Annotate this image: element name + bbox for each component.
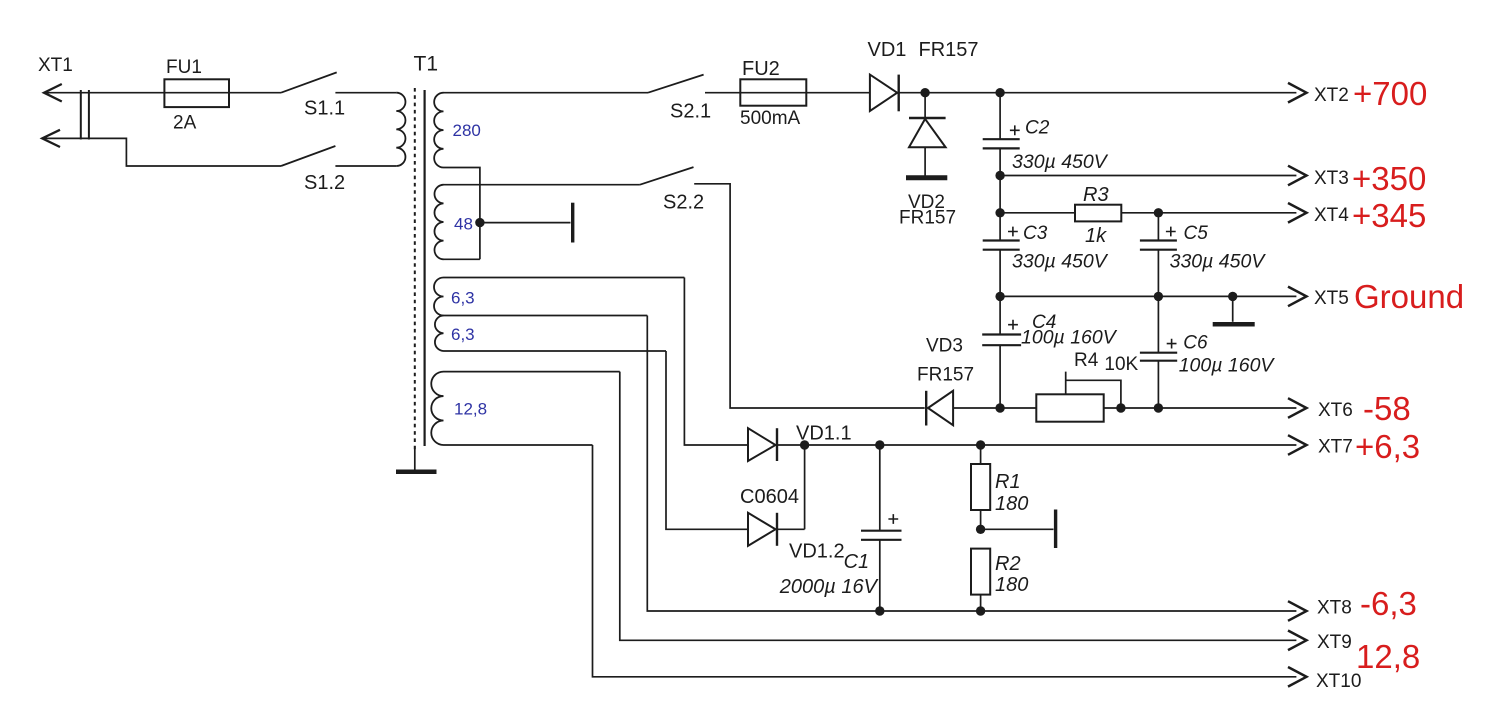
svg-text:FR157: FR157 (917, 365, 974, 386)
svg-text:280: 280 (453, 121, 481, 140)
diode VD3 cathode bar (925, 391, 927, 426)
svg-text:+345: +345 (1352, 197, 1426, 234)
svg-text:XT2: XT2 (1314, 85, 1349, 106)
T1 core solid line (424, 90, 426, 446)
wire (694, 184, 925, 408)
resistor R1 (980, 445, 982, 464)
T1 secondary winding 6,3 second (435, 316, 444, 352)
switch S2.1 blade (648, 75, 704, 93)
XT1 lower arrow (42, 130, 60, 147)
switch S1.1 blade (281, 72, 337, 92)
svg-text:XT3: XT3 (1314, 168, 1349, 189)
wire (444, 350, 667, 352)
fuse FU2 (740, 79, 806, 105)
wire (1121, 212, 1296, 214)
XT1 upper arrow (44, 84, 62, 102)
diode VD1 (870, 75, 897, 111)
T1 secondary winding 12,8 (431, 372, 443, 445)
wire (444, 371, 620, 373)
svg-text:VD1: VD1 (868, 39, 907, 61)
C3 plus sign (1008, 227, 1018, 237)
capacitor C5 (1157, 213, 1159, 241)
terminal arrow XT2 (1288, 83, 1307, 103)
svg-text:S1.1: S1.1 (304, 98, 345, 120)
rail XT10 (593, 445, 1297, 677)
svg-text:VD3: VD3 (926, 336, 963, 357)
diode VD2 cathode bar (909, 117, 946, 119)
capacitor C6 (1157, 296, 1159, 352)
svg-text:XT9: XT9 (1317, 632, 1352, 653)
wire (444, 92, 649, 94)
wire (804, 445, 806, 529)
terminal arrow XT7 (1288, 435, 1307, 455)
chassis tap bar (571, 203, 574, 243)
junction (1154, 403, 1163, 412)
wire (444, 184, 640, 186)
junction (475, 218, 484, 227)
svg-text:330µ 450V: 330µ 450V (1012, 251, 1109, 273)
junction (976, 525, 985, 534)
junction (875, 606, 884, 615)
svg-text:330µ 450V: 330µ 450V (1170, 251, 1267, 273)
VD2 ground bar (906, 175, 947, 180)
svg-text:C1: C1 (844, 551, 870, 573)
wire (981, 528, 1054, 530)
wire (924, 147, 926, 175)
junction (995, 88, 1004, 97)
svg-text:500mA: 500mA (740, 108, 801, 129)
terminal arrow XT10 (1288, 667, 1307, 687)
VD1.1 cathode bar (776, 428, 778, 461)
wire (444, 315, 648, 317)
svg-text:C2: C2 (1025, 118, 1050, 139)
svg-text:VD1.2: VD1.2 (789, 541, 845, 563)
T1 secondary winding 280 (434, 93, 443, 168)
svg-text:12,8: 12,8 (1356, 638, 1420, 675)
svg-text:XT6: XT6 (1318, 400, 1353, 421)
T1 secondary winding 6,3 first (434, 278, 444, 316)
wire (335, 92, 396, 94)
rheostat R4 (1036, 394, 1103, 421)
C6 plus sign (1167, 339, 1177, 349)
svg-text:100µ 160V: 100µ 160V (1021, 327, 1118, 349)
svg-text:100µ 160V: 100µ 160V (1179, 355, 1276, 377)
svg-text:R3: R3 (1083, 184, 1109, 206)
svg-text:10K: 10K (1104, 354, 1138, 375)
wire (705, 92, 870, 94)
svg-text:-58: -58 (1363, 390, 1411, 427)
resistor R3 (1075, 205, 1121, 222)
wire (335, 165, 396, 167)
terminal arrow XT6 (1288, 398, 1307, 418)
capacitor C4 (999, 296, 1001, 334)
svg-text:XT7: XT7 (1318, 437, 1353, 458)
svg-text:T1: T1 (414, 53, 439, 76)
VD1.2 cathode bar (776, 513, 778, 546)
svg-text:+6,3: +6,3 (1355, 428, 1420, 465)
terminal arrow XT5 (1288, 287, 1307, 307)
terminal arrow XT9 (1288, 631, 1307, 651)
wire (999, 176, 1001, 213)
chassis tap bar (1054, 510, 1057, 549)
svg-text:48: 48 (454, 215, 473, 234)
svg-text:XT1: XT1 (38, 55, 73, 76)
wire (45, 92, 281, 94)
rail XT9 (620, 372, 1297, 641)
svg-text:S1.2: S1.2 (304, 172, 345, 194)
wire (444, 444, 593, 446)
C4 plus sign (1008, 320, 1018, 330)
C5 plus sign (1166, 227, 1176, 237)
junction (800, 440, 809, 449)
ground bar (396, 470, 437, 475)
svg-text:12,8: 12,8 (454, 400, 487, 419)
svg-text:+700: +700 (1353, 75, 1427, 112)
resistor R2 (971, 549, 990, 595)
svg-text:C6: C6 (1183, 333, 1208, 354)
terminal arrow XT8 (1288, 601, 1307, 621)
svg-text:C5: C5 (1184, 223, 1209, 244)
wire (444, 277, 685, 279)
wire 6,3 to VD1.2 (666, 351, 748, 529)
terminal arrow XT3 (1288, 166, 1307, 186)
capacitor C2 (999, 93, 1001, 139)
wire (43, 138, 281, 166)
wire (444, 258, 480, 260)
svg-text:330µ 450V: 330µ 450V (1012, 151, 1109, 173)
svg-text:FR157: FR157 (919, 39, 979, 61)
rail XT5 (1000, 295, 1296, 297)
rail XT4 wire (1000, 212, 1075, 214)
svg-text:Ground: Ground (1354, 278, 1464, 315)
C1 plus sign (888, 514, 898, 524)
svg-text:-6,3: -6,3 (1360, 585, 1417, 622)
svg-text:FU1: FU1 (166, 57, 202, 78)
svg-text:R4: R4 (1074, 350, 1099, 371)
fuse FU1 (164, 79, 229, 107)
C2 plus sign (1010, 125, 1020, 135)
rail XT2 wire (897, 92, 1296, 94)
wire (480, 222, 571, 224)
connector XT1 pin bars (80, 90, 82, 140)
junction (976, 606, 985, 615)
diode VD2 (909, 119, 946, 147)
wire (776, 528, 805, 530)
rail XT7 wire (776, 444, 1297, 446)
T1 secondary winding 48 (434, 185, 443, 260)
wire (444, 168, 480, 260)
ground bar (1213, 322, 1255, 327)
diode VD3 (928, 391, 953, 425)
svg-text:2000µ 16V: 2000µ 16V (779, 576, 879, 598)
svg-text:C0604: C0604 (740, 486, 799, 508)
svg-text:180: 180 (995, 574, 1028, 596)
terminal arrow XT4 (1288, 203, 1307, 223)
svg-text:+350: +350 (1352, 160, 1426, 197)
svg-text:R1: R1 (995, 471, 1021, 493)
diode VD1.2 (748, 513, 776, 546)
rail XT8 (647, 316, 1296, 612)
junction (920, 88, 929, 97)
switch S1.2 blade (281, 146, 335, 166)
svg-text:XT4: XT4 (1314, 205, 1349, 226)
svg-text:6,3: 6,3 (451, 325, 475, 344)
svg-text:XT10: XT10 (1316, 671, 1361, 692)
svg-text:S2.2: S2.2 (663, 192, 704, 214)
svg-text:180: 180 (995, 493, 1028, 515)
junction (995, 208, 1004, 217)
junction (875, 440, 884, 449)
junction (976, 440, 985, 449)
R4 wiper (1066, 372, 1121, 408)
T1 core dashed line (414, 88, 416, 450)
junction (995, 403, 1004, 412)
ground stem (414, 446, 416, 470)
junction (1116, 403, 1125, 412)
T1 primary winding (396, 93, 405, 166)
svg-text:XT5: XT5 (1314, 288, 1349, 309)
svg-text:FR157: FR157 (899, 208, 956, 229)
wire 6,3 to VD1.1 (684, 278, 748, 446)
ground wire (1232, 296, 1234, 321)
rail XT3 (995, 171, 1004, 180)
svg-text:1k: 1k (1085, 225, 1107, 247)
capacitor C1 (879, 445, 881, 531)
diode VD1.1 (748, 428, 776, 461)
svg-text:C3: C3 (1023, 223, 1048, 244)
wire (924, 93, 926, 118)
svg-text:2A: 2A (173, 113, 197, 134)
svg-text:R2: R2 (995, 553, 1021, 575)
svg-text:XT8: XT8 (1317, 598, 1352, 619)
rail XT6 wire (953, 407, 1296, 409)
switch S2.2 blade (640, 167, 694, 185)
svg-text:S2.1: S2.1 (670, 101, 711, 123)
junction (1154, 208, 1163, 217)
svg-text:FU2: FU2 (742, 58, 780, 80)
capacitor C3 (999, 213, 1001, 241)
svg-text:6,3: 6,3 (451, 289, 475, 308)
VD1 cathode bar (898, 75, 900, 112)
